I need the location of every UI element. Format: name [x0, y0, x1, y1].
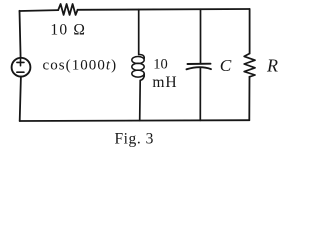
source V1 circle: [12, 58, 31, 77]
wire top-right segment: [78, 8, 250, 11]
minus mark: [17, 71, 24, 73]
capacitor C1 upper wire: [200, 9, 202, 63]
wire right upper: [249, 9, 251, 54]
inductor L1 upper wire: [138, 10, 140, 55]
wire left lower: [20, 77, 21, 121]
svg-text:mH: mH: [152, 74, 177, 91]
svg-text:Fig. 3: Fig. 3: [115, 130, 154, 147]
svg-text:C: C: [220, 56, 232, 75]
svg-text:10 Ω: 10 Ω: [50, 22, 86, 39]
resistor R vertical zigzag: [244, 54, 255, 77]
wire bottom rail: [20, 119, 250, 122]
wire right lower: [248, 77, 250, 120]
svg-text:R: R: [266, 55, 278, 75]
capacitor C1 curved bottom plate: [187, 67, 212, 69]
capacitor C1 top plate: [188, 63, 211, 65]
capacitor C1 lower wire: [199, 68, 201, 121]
svg-text:10: 10: [153, 56, 168, 72]
wire top-left segment: [20, 9, 59, 12]
resistor R1 10-ohm zigzag: [58, 4, 77, 15]
svg-text:cos(1000t): cos(1000t): [43, 57, 118, 73]
inductor L1 coil loops: [139, 54, 145, 58]
wire left upper: [20, 11, 21, 58]
inductor L1 lower hook and wire: [140, 74, 145, 121]
plus mark: [17, 59, 24, 66]
